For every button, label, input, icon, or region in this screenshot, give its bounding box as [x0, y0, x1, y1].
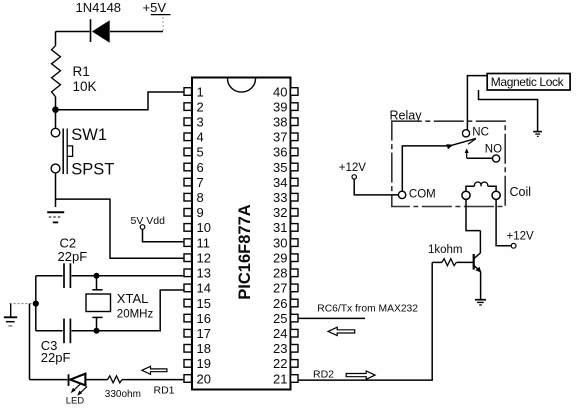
svg-text:LED: LED [66, 395, 85, 406]
svg-text:NC: NC [472, 126, 489, 138]
svg-text:SPST: SPST [71, 160, 114, 178]
svg-text:1kohm: 1kohm [428, 244, 463, 256]
svg-text:21: 21 [273, 371, 287, 386]
svg-text:12: 12 [197, 251, 211, 266]
svg-text:4: 4 [197, 130, 204, 145]
svg-text:28: 28 [273, 266, 287, 281]
svg-text:35: 35 [273, 160, 287, 175]
svg-text:16: 16 [197, 311, 211, 326]
svg-text:NO: NO [485, 143, 502, 155]
svg-text:11: 11 [197, 235, 211, 250]
svg-text:7: 7 [197, 175, 204, 190]
svg-text:37: 37 [273, 130, 287, 145]
svg-text:10K: 10K [73, 79, 97, 94]
svg-text:39: 39 [273, 99, 287, 114]
svg-text:5V Vdd: 5V Vdd [131, 215, 166, 227]
svg-text:24: 24 [273, 326, 287, 341]
svg-text:22pF: 22pF [41, 350, 71, 365]
svg-text:14: 14 [197, 281, 211, 296]
svg-text:+12V: +12V [339, 162, 367, 174]
svg-text:Magnetic Lock: Magnetic Lock [491, 75, 565, 89]
svg-text:38: 38 [273, 115, 287, 130]
svg-text:1: 1 [197, 84, 204, 99]
svg-text:RD1: RD1 [154, 385, 175, 397]
svg-text:5: 5 [197, 145, 204, 160]
svg-text:34: 34 [273, 175, 287, 190]
svg-text:26: 26 [273, 296, 287, 311]
svg-text:30: 30 [273, 235, 287, 250]
svg-text:8: 8 [197, 190, 204, 205]
svg-text:1N4148: 1N4148 [76, 0, 122, 15]
svg-text:9: 9 [197, 205, 204, 220]
svg-text:XTAL: XTAL [117, 291, 149, 306]
svg-text:+12V: +12V [507, 230, 535, 242]
svg-text:31: 31 [273, 220, 287, 235]
svg-text:18: 18 [197, 341, 211, 356]
svg-text:25: 25 [273, 311, 287, 326]
svg-text:17: 17 [197, 326, 211, 341]
svg-text:36: 36 [273, 145, 287, 160]
svg-text:6: 6 [197, 160, 204, 175]
svg-text:COM: COM [409, 189, 436, 201]
svg-text:29: 29 [273, 251, 287, 266]
svg-text:R1: R1 [73, 64, 90, 79]
svg-text:32: 32 [273, 205, 287, 220]
svg-text:23: 23 [273, 341, 287, 356]
svg-text:PIC16F877A: PIC16F877A [236, 204, 254, 299]
svg-text:15: 15 [197, 296, 211, 311]
svg-text:19: 19 [197, 356, 211, 371]
svg-text:330ohm: 330ohm [105, 389, 141, 400]
svg-text:3: 3 [197, 115, 204, 130]
svg-text:33: 33 [273, 190, 287, 205]
svg-text:20: 20 [197, 371, 211, 386]
svg-text:RD2: RD2 [313, 369, 334, 381]
svg-text:27: 27 [273, 281, 287, 296]
svg-text:Coil: Coil [510, 185, 532, 199]
svg-text:20MHz: 20MHz [117, 308, 154, 320]
svg-text:10: 10 [197, 220, 211, 235]
svg-text:RC6/Tx from MAX232: RC6/Tx from MAX232 [317, 304, 418, 315]
svg-text:40: 40 [273, 84, 287, 99]
svg-text:+5V: +5V [143, 0, 167, 15]
svg-text:22: 22 [273, 356, 287, 371]
svg-text:SW1: SW1 [71, 126, 107, 144]
svg-text:22pF: 22pF [58, 249, 88, 264]
svg-text:13: 13 [197, 266, 211, 281]
svg-text:2: 2 [197, 99, 204, 114]
